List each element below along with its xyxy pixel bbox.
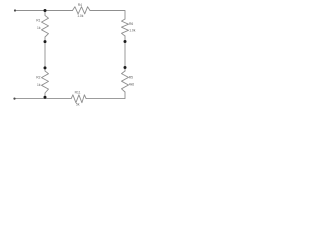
svg-text:R11: R11 — [75, 90, 81, 94]
wire right upper stub — [124, 36, 126, 42]
svg-text:4k6: 4k6 — [129, 82, 134, 86]
svg-text:1.0k: 1.0k — [77, 14, 84, 18]
junction bottom-left (node to R2) — [44, 96, 47, 99]
wire right lower stub — [124, 68, 126, 72]
wire bottom-right corner — [86, 92, 125, 99]
junction right upper — [124, 40, 127, 43]
svg-text:1.0k: 1.0k — [129, 29, 136, 33]
svg-text:5k: 5k — [76, 103, 80, 107]
junction left upper — [44, 40, 47, 43]
wire left middle — [44, 42, 46, 68]
terminal A (top left) — [14, 9, 16, 11]
svg-text:R1: R1 — [36, 19, 40, 23]
svg-text:1k: 1k — [37, 83, 41, 87]
resistor R4 (top, horizontal) — [73, 7, 91, 14]
svg-text:R5: R5 — [129, 76, 133, 80]
junction top-left (node to R1) — [44, 9, 47, 12]
wire right middle — [124, 42, 126, 68]
svg-text:1k: 1k — [37, 26, 41, 30]
svg-text:R6: R6 — [129, 22, 133, 26]
junction left lower — [44, 66, 47, 69]
wire top-left horizontal — [16, 10, 72, 12]
resistor R2 (left bottom, vertical) — [42, 68, 49, 97]
wire top-right horizontal and corner down — [90, 11, 125, 20]
resistor R6 (right top, vertical) — [122, 19, 129, 36]
resistor R5 (right bottom, vertical) — [122, 71, 129, 92]
resistor R1 (left top, vertical) — [42, 11, 49, 42]
svg-text:R4: R4 — [78, 3, 82, 7]
resistor R3 (bottom, horizontal) — [71, 95, 86, 103]
svg-text:R2: R2 — [36, 75, 40, 79]
terminal B (bottom left) — [13, 98, 15, 100]
junction right lower — [124, 66, 127, 69]
wire bottom-left horizontal — [16, 98, 71, 100]
